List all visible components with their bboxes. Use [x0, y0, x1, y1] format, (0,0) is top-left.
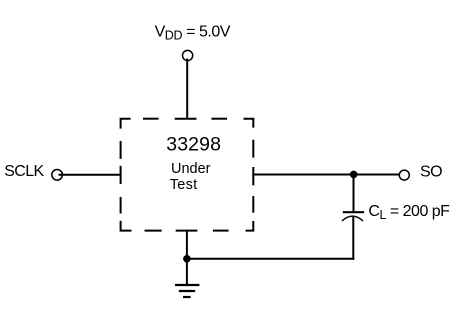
node junction ground/CL return	[183, 255, 191, 263]
capacitor CL top plate	[343, 211, 364, 213]
wire VDD to DUT top	[186, 59, 188, 119]
bottom edge dashes	[121, 221, 132, 231]
svg-text:Test: Test	[170, 177, 198, 193]
terminal SCLK	[52, 170, 63, 181]
wire DUT right to SO	[252, 174, 399, 176]
right edge dashes	[252, 140, 254, 158]
wire ground node to CL bottom	[187, 258, 354, 260]
wire DUT bottom to ground node	[186, 230, 188, 259]
capacitor CL curved bottom plate	[342, 216, 363, 221]
terminal SO	[399, 170, 409, 180]
left edge dashes	[120, 141, 122, 159]
svg-text:VDD = 5.0V: VDD = 5.0V	[155, 23, 231, 42]
capacitor CL top lead	[353, 174, 355, 211]
svg-text:SO: SO	[420, 164, 442, 181]
capacitor CL bottom lead	[352, 217, 354, 260]
svg-text:CL = 200 pF: CL = 200 pF	[368, 203, 450, 222]
svg-text:Under: Under	[171, 161, 211, 177]
DUT box U1 33298 (dashed)	[121, 119, 254, 231]
node junction SO/CL	[350, 171, 358, 179]
terminal VDD	[183, 50, 193, 60]
wire node to ground symbol	[186, 259, 188, 285]
svg-text:SCLK: SCLK	[4, 163, 44, 180]
top edge dashes	[121, 119, 131, 129]
wire SCLK to DUT left	[59, 174, 122, 176]
svg-text:33298: 33298	[166, 134, 221, 156]
ground	[175, 285, 199, 297]
